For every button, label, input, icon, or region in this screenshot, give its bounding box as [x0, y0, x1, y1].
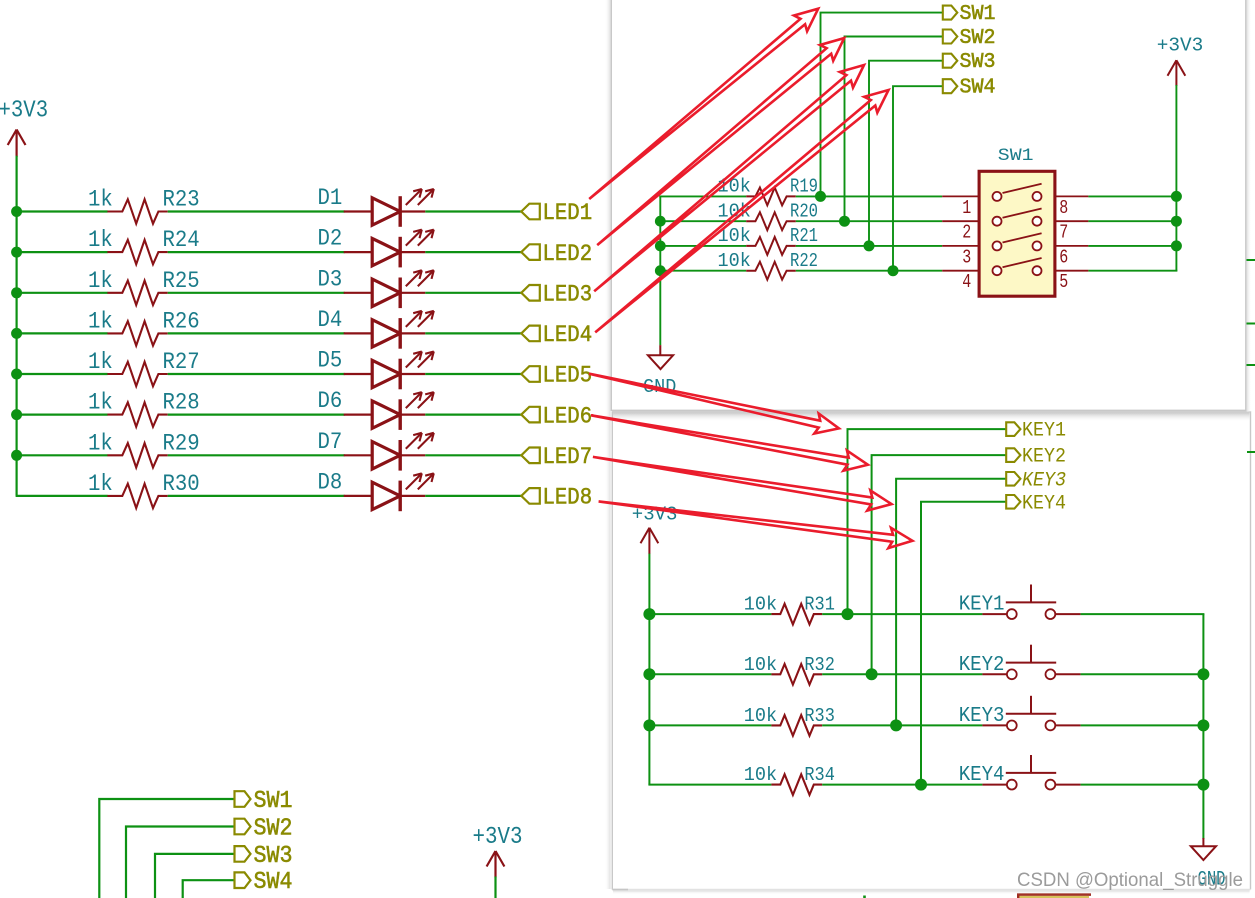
svg-text:6: 6	[1059, 246, 1068, 268]
junction left rail B row 2	[643, 668, 655, 680]
junction left rail B row 3	[643, 719, 655, 731]
wire +3V3 rail A	[1175, 85, 1177, 271]
junction left rail A row 3	[655, 241, 666, 252]
wire row R19 to +3V3 rail	[1088, 195, 1177, 197]
wire row R34 mid	[822, 784, 982, 786]
LED D8	[344, 473, 434, 511]
wire row R25 mid	[168, 292, 345, 294]
svg-text:SW2: SW2	[960, 27, 996, 50]
wire SW3 net	[869, 61, 943, 246]
svg-text:1k: 1k	[88, 308, 113, 335]
annotation arrow LED3 to SW3 net	[594, 65, 864, 291]
resistor R34	[771, 774, 822, 795]
junction left rail B row 1	[643, 608, 655, 620]
wire row R30 mid	[168, 495, 345, 497]
resistor R28	[107, 402, 167, 426]
svg-text:1: 1	[962, 197, 971, 219]
wire row R29 right	[425, 454, 521, 456]
wire row R27 right	[425, 373, 521, 375]
svg-text:D1: D1	[318, 185, 343, 212]
pin 5 SW1	[1055, 270, 1089, 272]
svg-text:10k: 10k	[744, 705, 777, 727]
wire row R22 to +3V3 rail	[1088, 270, 1177, 272]
wire right rail B	[1202, 614, 1204, 839]
wire row R29 mid	[168, 454, 345, 456]
hierarchical label KEY4 (panel B)	[1006, 495, 1020, 509]
pin 2 SW1	[942, 220, 979, 222]
junction SW3 tap	[864, 240, 875, 251]
junction rail row 5	[11, 369, 22, 380]
LED D6	[344, 392, 434, 430]
annotation arrow LED2 to SW2 net	[597, 38, 844, 245]
resistor R32	[771, 664, 822, 685]
svg-text:R20: R20	[790, 200, 818, 222]
annotation arrow LED8 to KEY4 net	[599, 501, 913, 548]
junction rail row 3	[11, 287, 22, 298]
hierarchical label LED8	[521, 488, 540, 504]
wire row R33 right	[1081, 724, 1205, 726]
svg-text:3: 3	[962, 246, 971, 268]
svg-text:SW1: SW1	[960, 3, 996, 26]
wire row R27 mid	[168, 373, 345, 375]
wire SW1 net	[821, 13, 944, 197]
screenshot panel B frame	[612, 412, 1250, 890]
power GND (panel B)	[1202, 838, 1204, 846]
resistor R26	[107, 321, 167, 345]
svg-text:SW2: SW2	[254, 816, 293, 843]
resistor R21	[746, 237, 796, 255]
svg-text:CSDN @Optional_Struggle: CSDN @Optional_Struggle	[1017, 869, 1243, 891]
svg-text:10k: 10k	[744, 594, 777, 616]
annotation arrow LED5 to KEY1 net	[589, 374, 839, 434]
svg-text:1k: 1k	[88, 268, 113, 295]
svg-text:1k: 1k	[88, 430, 113, 457]
wire row R31 right	[1081, 613, 1205, 615]
pin 7 SW1	[1055, 220, 1089, 222]
wire stub right edge 3	[1247, 364, 1255, 366]
svg-text:SW3: SW3	[254, 843, 293, 870]
junction KEY1 tap	[842, 608, 854, 620]
wire row R23 right	[425, 210, 521, 212]
component fragment bottom edge	[1017, 894, 1091, 898]
wire row R21 to +3V3 rail	[1088, 245, 1177, 247]
resistor R29	[107, 443, 167, 467]
svg-text:R28: R28	[163, 390, 200, 417]
wire row R20 left	[659, 220, 746, 222]
svg-text:4: 4	[962, 271, 971, 293]
junction SW4 tap	[888, 265, 899, 276]
svg-text:1k: 1k	[88, 187, 113, 214]
svg-text:LED3: LED3	[543, 282, 593, 309]
svg-text:LED1: LED1	[543, 200, 593, 227]
junction right rail A row 1	[1171, 191, 1182, 202]
svg-text:LED8: LED8	[543, 485, 593, 512]
wire row R28 right	[425, 414, 521, 416]
junction right rail A row 3	[1171, 240, 1182, 251]
resistor R30	[107, 484, 167, 508]
power GND (panel A)	[659, 345, 661, 355]
svg-text:D5: D5	[318, 348, 343, 375]
pin 3 SW1	[942, 245, 979, 247]
wire row R22 right	[796, 270, 942, 272]
LED D5	[344, 352, 434, 390]
LED D1	[344, 189, 434, 227]
pin 6 SW1	[1055, 245, 1089, 247]
hierarchical label KEY3 (panel B)	[1006, 472, 1020, 486]
wire KEY3 net	[896, 479, 1006, 726]
junction left rail A row 2	[655, 216, 666, 227]
wire row R34 left	[648, 784, 771, 786]
resistor R27	[107, 362, 167, 386]
annotation arrow LED7 to KEY3 net	[593, 457, 892, 511]
wire row R20 right	[796, 220, 942, 222]
wire row R24 right	[425, 251, 521, 253]
wire +3V3 rail left	[16, 156, 18, 496]
svg-text:R32: R32	[804, 654, 835, 676]
junction SW1 tap	[815, 191, 826, 202]
svg-text:R21: R21	[790, 225, 818, 247]
wire row R19 right	[796, 195, 942, 197]
resistor R24	[107, 240, 167, 264]
svg-text:2: 2	[962, 222, 971, 244]
resistor R20	[746, 212, 796, 230]
wire stub bottom edge	[863, 896, 866, 898]
annotation arrow LED6 to KEY2 net	[591, 415, 868, 470]
svg-text:1k: 1k	[88, 390, 113, 417]
hierarchical label LED4	[521, 326, 540, 342]
svg-text:R33: R33	[804, 705, 835, 727]
svg-text:KEY1: KEY1	[1022, 420, 1066, 443]
svg-text:1k: 1k	[88, 227, 113, 254]
junction rail row 4	[11, 328, 22, 339]
push button KEY2	[982, 645, 1080, 679]
hierarchical label LED7	[521, 448, 540, 464]
push button KEY3	[982, 696, 1080, 731]
junction right rail A row 2	[1171, 216, 1182, 227]
junction left rail A row 4	[655, 265, 666, 276]
wire row R20 to +3V3 rail	[1088, 220, 1177, 222]
wire to SW2 label (bottom left)	[126, 827, 235, 898]
pin 4 SW1	[942, 270, 979, 272]
svg-text:+3V3: +3V3	[1157, 35, 1204, 57]
svg-text:SW1: SW1	[998, 146, 1034, 166]
dip switch SW1 body	[979, 171, 1055, 296]
annotation arrow LED4 to SW4 net	[595, 90, 888, 332]
wire row R22 left	[659, 270, 746, 272]
push button KEY4	[982, 755, 1080, 789]
hierarchical label LED1	[521, 204, 540, 220]
svg-text:8: 8	[1059, 197, 1068, 219]
svg-text:R29: R29	[163, 430, 200, 457]
wire GND stem (panel A)	[659, 196, 661, 345]
push button KEY1	[982, 585, 1080, 619]
junction SW2 tap	[839, 216, 850, 227]
switch element 2 SW1	[993, 209, 1042, 226]
wire row R31 mid	[822, 613, 982, 615]
wire row R33 left	[648, 724, 771, 726]
resistor R19	[746, 188, 796, 206]
junction rail row 7	[11, 450, 22, 461]
svg-text:R34: R34	[804, 764, 835, 786]
wire +3V3 bottom	[494, 877, 496, 898]
wire KEY4 net	[921, 502, 1006, 785]
junction KEY4 tap	[915, 779, 927, 791]
junction right rail B row 3	[1197, 719, 1209, 731]
svg-text:1k: 1k	[88, 349, 113, 376]
resistor R23	[107, 199, 167, 223]
wire +3V3 rail B	[648, 554, 650, 785]
hierarchical label LED2	[521, 244, 540, 260]
wire to SW1 label (bottom left)	[99, 799, 234, 898]
wire stub right edge 4	[1247, 451, 1255, 453]
resistor R33	[771, 715, 822, 736]
wire stub right edge 1	[1247, 259, 1255, 261]
wire row R26 mid	[168, 332, 345, 334]
svg-text:R30: R30	[163, 471, 200, 498]
hierarchical label KEY1 (panel B)	[1006, 422, 1020, 436]
wire SW2 net	[845, 37, 944, 222]
hierarchical label LED6	[521, 407, 540, 423]
wire SW4 net	[893, 86, 943, 271]
wire KEY1 net	[848, 429, 1007, 614]
wire row R21 right	[796, 245, 942, 247]
LED D7	[344, 433, 434, 471]
wire row R29 left	[16, 454, 108, 456]
wire row R26 left	[16, 332, 108, 334]
svg-text:1k: 1k	[88, 471, 113, 498]
svg-text:KEY3: KEY3	[1022, 469, 1066, 492]
wire row R32 left	[648, 673, 771, 675]
wire row R25 left	[16, 292, 108, 294]
svg-text:D3: D3	[318, 266, 343, 293]
svg-text:R19: R19	[790, 176, 818, 198]
LED D3	[344, 270, 434, 308]
svg-text:D2: D2	[318, 226, 343, 253]
switch element 4 SW1	[993, 258, 1042, 275]
svg-text:R27: R27	[163, 349, 200, 376]
svg-text:R31: R31	[804, 594, 835, 616]
pin 1 SW1	[942, 195, 979, 197]
wire row R19 left	[659, 195, 746, 197]
svg-text:R26: R26	[163, 308, 200, 335]
hierarchical label SW3 (panel A)	[943, 54, 958, 68]
hierarchical label LED3	[521, 285, 540, 301]
svg-text:R25: R25	[163, 268, 200, 295]
svg-text:LED4: LED4	[543, 322, 593, 349]
svg-text:KEY4: KEY4	[1022, 492, 1066, 515]
svg-text:D6: D6	[318, 388, 343, 415]
svg-text:D4: D4	[318, 307, 343, 334]
svg-text:+3V3: +3V3	[0, 98, 48, 125]
switch element 3 SW1	[993, 233, 1042, 250]
wire row R30 right	[425, 495, 521, 497]
svg-text:+3V3: +3V3	[473, 824, 523, 851]
screenshot panel A frame	[611, 0, 1246, 410]
svg-text:10k: 10k	[718, 250, 751, 272]
wire row R26 right	[425, 332, 521, 334]
junction KEY2 tap	[866, 668, 878, 680]
resistor R22	[746, 262, 796, 280]
hierarchical label SW4 (bottom left)	[235, 872, 251, 888]
svg-text:10k: 10k	[744, 654, 777, 676]
svg-text:LED2: LED2	[543, 241, 593, 268]
hierarchical label SW3 (bottom left)	[235, 846, 251, 862]
wire stub right edge 2	[1247, 323, 1255, 325]
svg-text:10k: 10k	[744, 764, 777, 786]
junction KEY3 tap	[890, 719, 902, 731]
svg-text:D8: D8	[318, 469, 343, 496]
svg-text:LED5: LED5	[543, 363, 593, 390]
svg-text:D7: D7	[318, 429, 343, 456]
switch element 1 SW1	[993, 184, 1042, 201]
wire row R32 right	[1081, 673, 1205, 675]
svg-text:KEY4: KEY4	[959, 763, 1005, 787]
hierarchical label KEY2 (panel B)	[1006, 448, 1020, 462]
svg-text:LED7: LED7	[543, 444, 593, 471]
svg-text:SW4: SW4	[254, 869, 293, 896]
wire row R25 right	[425, 292, 521, 294]
LED D4	[344, 311, 434, 349]
wire row R32 mid	[822, 673, 982, 675]
junction rail row 1	[11, 206, 22, 217]
hierarchical label SW2 (bottom left)	[235, 819, 251, 835]
svg-text:7: 7	[1059, 222, 1068, 244]
LED D2	[344, 230, 434, 268]
junction rail row 6	[11, 409, 22, 420]
wire row R28 mid	[168, 414, 345, 416]
wire row R23 mid	[168, 210, 345, 212]
svg-text:SW4: SW4	[960, 77, 996, 100]
wire row R30 left	[16, 495, 108, 497]
wire to SW3 label (bottom left)	[155, 854, 235, 898]
wire row R34 right	[1081, 784, 1205, 786]
wire row R28 left	[16, 414, 108, 416]
wire row R24 left	[16, 251, 108, 253]
pin 8 SW1	[1055, 195, 1089, 197]
wire row R24 mid	[168, 251, 345, 253]
wire to SW4 label (bottom left)	[183, 880, 235, 898]
hierarchical label LED5	[521, 366, 540, 382]
resistor R31	[771, 604, 822, 625]
svg-text:SW1: SW1	[254, 788, 293, 815]
wire KEY2 net	[872, 455, 1007, 674]
svg-text:KEY3: KEY3	[959, 704, 1005, 728]
resistor R25	[107, 281, 167, 305]
junction right rail B row 4	[1197, 779, 1209, 791]
hierarchical label SW1 (bottom left)	[235, 791, 251, 807]
wire row R23 left	[16, 210, 108, 212]
svg-text:KEY1: KEY1	[959, 593, 1005, 617]
hierarchical label SW1 (panel A)	[943, 6, 958, 20]
annotation arrow LED1 to SW1 net	[589, 9, 818, 199]
hierarchical label SW2 (panel A)	[943, 30, 958, 44]
svg-text:R22: R22	[790, 250, 818, 272]
wire row R31 left	[648, 613, 771, 615]
svg-text:KEY2: KEY2	[959, 653, 1005, 677]
svg-text:5: 5	[1059, 271, 1068, 293]
junction rail row 2	[11, 247, 22, 258]
hierarchical label SW4 (panel A)	[943, 79, 958, 93]
wire row R27 left	[16, 373, 108, 375]
svg-text:R23: R23	[163, 187, 200, 214]
svg-text:SW3: SW3	[960, 51, 996, 74]
svg-text:LED6: LED6	[543, 403, 593, 430]
wire row R21 left	[659, 245, 746, 247]
svg-text:R24: R24	[163, 227, 200, 254]
svg-text:KEY2: KEY2	[1022, 446, 1066, 469]
junction right rail B row 2	[1197, 668, 1209, 680]
wire row R33 mid	[822, 724, 982, 726]
